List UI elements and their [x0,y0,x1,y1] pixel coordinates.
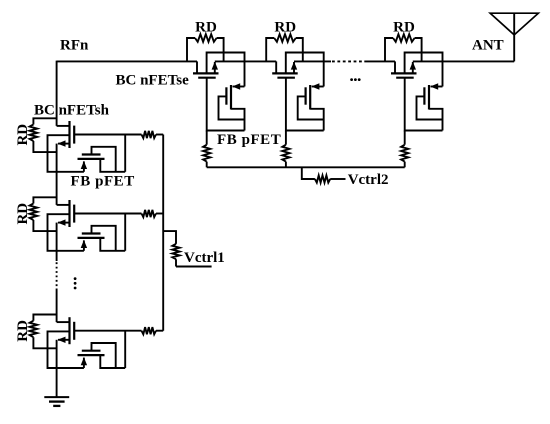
transistor BC nFETsh (shunt cell 3) [57,317,75,344]
transistor BC nFETsh (shunt cell 1) [57,121,75,148]
resistor RD (series cell 2) [266,34,303,61]
resistor gate (series cell 3) [401,131,408,168]
wire shunt rail dotted continuation [56,262,58,287]
wire gate loop (shunt cell 3) [124,331,126,368]
resistor gate (shunt cell 1) [142,131,164,138]
resistor Vctrl1 [172,244,179,267]
wire shunt rail to ground [56,340,58,397]
transistor FB pFET (shunt cell 3) [78,343,126,368]
wire RF after series cell 2 [294,60,331,62]
wire gate loop (series cell 2) [286,78,324,131]
wire RF dashed continuation (series) [332,60,364,62]
wire body net (series cell 2) [286,53,324,87]
wire body net (shunt cell 3) [48,331,84,368]
resistor RD (shunt cell 2) [30,197,57,231]
resistor Vctrl2 [315,175,346,182]
resistor gate (shunt cell 3) [142,327,164,334]
transistor BC nFETse (series cell 3) [391,61,417,77]
transistor FB pFET (shunt cell 1) [78,147,126,172]
wire shunt rail before cell 3 [56,289,58,323]
resistor gate (series cell 2) [282,131,289,168]
wire RF vertical RFn down to shunt cell 1 [56,61,58,126]
svg-text:RD: RD [274,20,296,36]
wire gate lead (shunt cell 2) [74,213,141,215]
resistor RD (series cell 3) [385,34,422,61]
transistor FB pFET (series cell 2) [298,83,324,130]
wire gate loop (shunt cell 1) [124,135,126,172]
resistor gate (shunt cell 2) [142,210,164,217]
wire gate loop (series cell 3) [405,78,443,131]
wire shunt rail after cell 2 [56,223,58,261]
wire gate lead (shunt cell 3) [74,330,141,332]
resistor RD (shunt cell 1) [30,118,57,152]
wire Vctrl1 branch [163,231,176,244]
wire body net (shunt cell 2) [48,214,84,251]
wire Vctrl2 rail [207,166,405,168]
svg-text:ANT: ANT [472,38,504,54]
resistor gate (series cell 1) [203,131,210,168]
antenna ANT [490,13,538,61]
svg-text:RD: RD [195,20,217,36]
resistor RD (series cell 1) [187,34,224,61]
wire Vctrl2 branch [302,167,315,179]
wire shunt rail between cells 1 and 2 [56,144,58,205]
wire Vctrl1 rail [162,135,164,331]
ellipsis dots (series stack) [350,78,360,81]
wire gate loop (series cell 1) [207,78,245,131]
transistor FB pFET (shunt cell 2) [78,226,126,251]
transistor FB pFET (series cell 3) [417,83,443,130]
wire gate loop (shunt cell 2) [124,214,126,251]
transistor FB pFET (series cell 1) [219,83,245,130]
wire RF horizontal from RFn to series cell 1 [57,60,197,62]
wire RF from series cell 3 to antenna [413,60,514,62]
ground [44,397,69,406]
ellipsis dots (shunt stack) [74,277,77,289]
svg-text:FB pFET: FB pFET [217,132,281,148]
wire RF between series cells 1 and 2 [215,60,276,62]
svg-text:FB pFET: FB pFET [71,174,135,190]
svg-text:RD: RD [15,124,31,146]
wire body net (shunt cell 1) [48,135,84,172]
svg-text:RD: RD [393,20,415,36]
svg-text:BC nFETse: BC nFETse [116,73,190,89]
resistor RD (shunt cell 3) [30,315,57,349]
wire body net (series cell 1) [207,53,245,87]
svg-text:RD: RD [15,320,31,342]
wire Vctrl1 underline [176,266,212,268]
svg-text:RD: RD [15,203,31,225]
transistor BC nFETsh (shunt cell 2) [57,200,75,227]
transistor BC nFETse (series cell 1) [193,61,219,77]
svg-text:Vctrl1: Vctrl1 [184,250,225,266]
svg-text:Vctrl2: Vctrl2 [348,172,389,188]
wire gate lead (shunt cell 1) [74,134,141,136]
wire body net (series cell 3) [405,53,443,87]
wire RF before series cell 3 [364,60,395,62]
transistor BC nFETse (series cell 2) [272,61,298,77]
svg-text:BC nFETsh: BC nFETsh [34,103,110,119]
svg-text:RFn: RFn [60,38,89,54]
